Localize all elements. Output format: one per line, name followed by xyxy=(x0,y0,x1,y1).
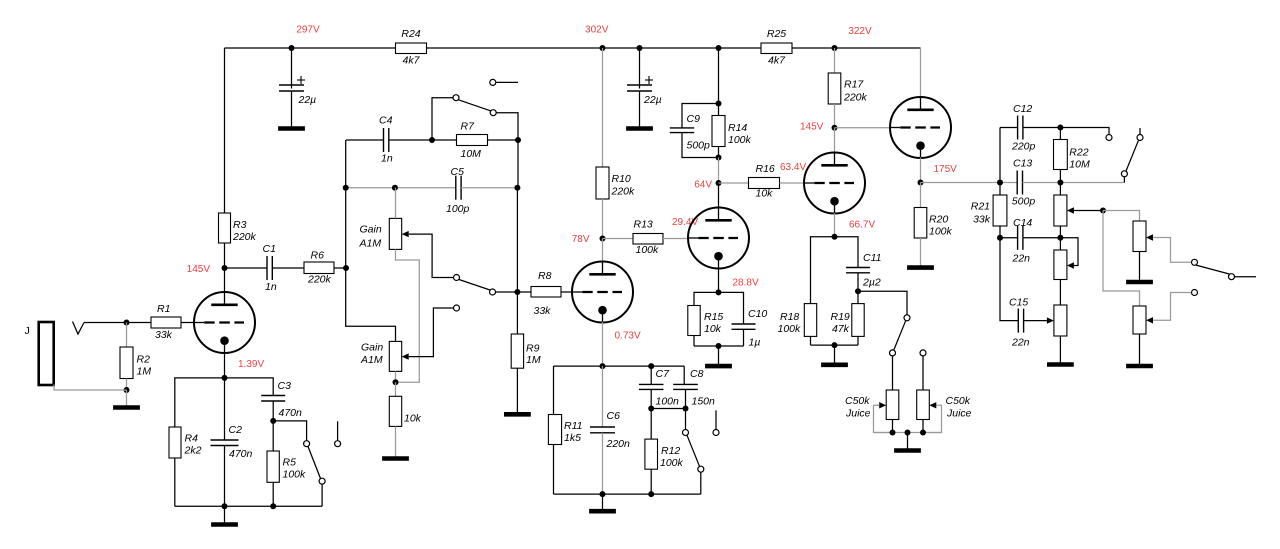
svg-text:C5: C5 xyxy=(451,166,465,178)
svg-text:R7: R7 xyxy=(461,121,476,133)
svg-text:R21: R21 xyxy=(971,201,990,213)
svg-text:R12: R12 xyxy=(661,445,680,457)
svg-text:R18: R18 xyxy=(780,311,799,323)
svg-text:C6: C6 xyxy=(607,410,621,422)
svg-text:C3: C3 xyxy=(278,380,292,392)
svg-text:R9: R9 xyxy=(526,343,540,355)
svg-text:R16: R16 xyxy=(756,163,775,175)
svg-text:A1M: A1M xyxy=(360,354,383,366)
svg-text:100k: 100k xyxy=(728,134,752,146)
svg-text:R5: R5 xyxy=(283,457,297,469)
svg-text:J: J xyxy=(25,325,30,337)
svg-text:R25: R25 xyxy=(767,28,786,40)
svg-text:R22: R22 xyxy=(1069,146,1088,158)
svg-text:C11: C11 xyxy=(863,252,881,264)
svg-text:22n: 22n xyxy=(1011,337,1030,349)
svg-text:302V: 302V xyxy=(585,25,609,36)
svg-text:1k5: 1k5 xyxy=(564,432,581,444)
svg-text:33k: 33k xyxy=(155,329,173,341)
svg-text:4k7: 4k7 xyxy=(768,55,786,67)
svg-text:R2: R2 xyxy=(137,354,151,366)
svg-text:Juice: Juice xyxy=(845,408,871,420)
svg-text:R1: R1 xyxy=(157,303,170,315)
svg-text:C8: C8 xyxy=(690,368,704,380)
svg-text:10M: 10M xyxy=(461,148,482,160)
svg-text:R6: R6 xyxy=(311,250,325,262)
svg-text:R19: R19 xyxy=(831,311,850,323)
svg-text:100k: 100k xyxy=(778,323,802,335)
svg-text:297V: 297V xyxy=(296,25,320,36)
svg-text:150n: 150n xyxy=(692,396,716,408)
svg-text:64V: 64V xyxy=(694,180,712,191)
svg-text:322V: 322V xyxy=(848,26,872,37)
svg-text:A1M: A1M xyxy=(359,238,382,250)
svg-text:220n: 220n xyxy=(606,438,631,450)
svg-text:470n: 470n xyxy=(279,407,303,419)
svg-text:R13: R13 xyxy=(634,219,653,231)
svg-text:R14: R14 xyxy=(728,122,747,134)
svg-text:C4: C4 xyxy=(379,115,393,127)
svg-text:R20: R20 xyxy=(929,214,948,226)
svg-text:100k: 100k xyxy=(660,457,684,469)
svg-text:22n: 22n xyxy=(1012,253,1031,265)
svg-text:22µ: 22µ xyxy=(643,94,662,106)
svg-text:C1: C1 xyxy=(263,243,276,255)
svg-text:R17: R17 xyxy=(844,79,864,91)
svg-text:220k: 220k xyxy=(232,231,257,243)
svg-text:1µ: 1µ xyxy=(749,337,761,349)
svg-text:175V: 175V xyxy=(934,164,958,175)
svg-text:1.39V: 1.39V xyxy=(238,359,264,370)
svg-text:C50k: C50k xyxy=(845,395,870,407)
svg-text:R10: R10 xyxy=(612,173,631,185)
svg-text:100k: 100k xyxy=(283,469,307,481)
svg-text:100n: 100n xyxy=(656,396,680,408)
svg-text:33k: 33k xyxy=(534,305,552,317)
svg-text:C9: C9 xyxy=(687,113,701,125)
svg-text:C12: C12 xyxy=(1013,103,1032,115)
svg-text:2µ2: 2µ2 xyxy=(862,277,881,289)
svg-text:R4: R4 xyxy=(185,433,199,445)
svg-text:C14: C14 xyxy=(1013,217,1032,229)
svg-text:220k: 220k xyxy=(611,186,636,198)
svg-text:Juice: Juice xyxy=(946,408,972,420)
svg-text:470n: 470n xyxy=(229,448,253,460)
svg-text:500p: 500p xyxy=(687,139,711,151)
svg-text:63.4V: 63.4V xyxy=(780,162,806,173)
svg-text:1M: 1M xyxy=(526,354,541,366)
svg-text:Gain: Gain xyxy=(360,224,382,236)
svg-text:0.73V: 0.73V xyxy=(615,331,641,342)
svg-text:4k7: 4k7 xyxy=(403,55,421,67)
svg-text:33k: 33k xyxy=(973,213,991,225)
svg-text:78V: 78V xyxy=(572,234,590,245)
svg-text:10k: 10k xyxy=(404,413,422,425)
svg-text:C7: C7 xyxy=(656,368,671,380)
svg-text:220p: 220p xyxy=(1011,141,1036,153)
svg-text:10k: 10k xyxy=(704,323,722,335)
svg-text:C15: C15 xyxy=(1009,297,1028,309)
svg-text:R15: R15 xyxy=(704,311,723,323)
svg-text:500p: 500p xyxy=(1012,196,1036,208)
svg-text:100k: 100k xyxy=(929,226,953,238)
svg-text:220k: 220k xyxy=(843,92,868,104)
svg-text:Gain: Gain xyxy=(361,342,383,354)
svg-text:28.8V: 28.8V xyxy=(733,278,759,289)
svg-text:47k: 47k xyxy=(832,323,850,335)
svg-text:R3: R3 xyxy=(233,219,247,231)
svg-text:R11: R11 xyxy=(564,420,582,432)
svg-text:C50k: C50k xyxy=(946,395,971,407)
svg-text:2k2: 2k2 xyxy=(184,445,202,457)
svg-text:66.7V: 66.7V xyxy=(849,220,875,231)
svg-text:1n: 1n xyxy=(265,281,277,293)
svg-text:1M: 1M xyxy=(137,365,152,377)
svg-text:C2: C2 xyxy=(229,424,243,436)
svg-text:C13: C13 xyxy=(1013,158,1032,170)
svg-text:10k: 10k xyxy=(756,188,774,200)
svg-text:1n: 1n xyxy=(381,153,393,165)
svg-text:145V: 145V xyxy=(187,264,211,275)
svg-text:10M: 10M xyxy=(1069,159,1090,171)
svg-text:R8: R8 xyxy=(538,270,552,282)
svg-text:220k: 220k xyxy=(307,274,332,286)
svg-text:22µ: 22µ xyxy=(298,94,317,106)
svg-text:R24: R24 xyxy=(401,28,420,40)
svg-text:100k: 100k xyxy=(636,244,660,256)
svg-text:145V: 145V xyxy=(800,122,824,133)
svg-text:C10: C10 xyxy=(748,308,767,320)
svg-text:100p: 100p xyxy=(446,203,470,215)
